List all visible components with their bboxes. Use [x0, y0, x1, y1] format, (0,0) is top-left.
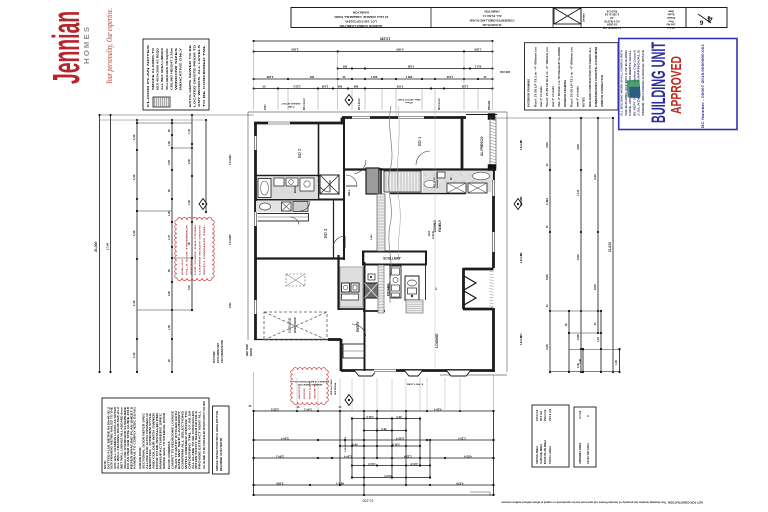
top dim row 5: [253, 85, 494, 90]
sheet number 4/6: [686, 8, 727, 28]
laundry tiled floor: [340, 267, 363, 307]
svg-text:2,480: 2,480: [266, 75, 273, 79]
svg-text:1,110: 1,110: [577, 189, 580, 196]
svg-text:BATH: BATH: [293, 186, 297, 193]
top dim extension lines: [254, 41, 493, 370]
bottom wall label: [407, 383, 424, 386]
datum diamond bottom: [345, 395, 353, 406]
title strip outer frame: [291, 8, 727, 28]
svg-text:FOR TOWEL RAIL FIXING: FOR TOWEL RAIL FIXING: [194, 224, 197, 275]
logo tagline script: [105, 8, 114, 84]
svg-text:1,310: 1,310: [446, 75, 453, 79]
svg-text:1.6x1.48: 1.6x1.48: [520, 140, 523, 150]
ensuite tiled floor: [423, 171, 493, 192]
svg-text:A: A: [586, 415, 590, 417]
svg-text:2,94 1: 2,94 1: [276, 455, 284, 459]
stamp BC number: [701, 44, 705, 128]
svg-text:max 4" of studs: max 4" of studs: [539, 86, 543, 107]
svg-text:259.3 m2: 259.3 m2: [543, 409, 547, 421]
svg-text:FLOOR PLAN: FLOOR PLAN: [603, 26, 621, 30]
svg-text:BD 1: BD 1: [417, 136, 422, 146]
room label bath: [293, 186, 297, 193]
svg-text:HALL: HALL: [348, 189, 351, 196]
wall alfresco top edge: [466, 114, 497, 120]
svg-text:CEILING HEIGHT 2.55m: CEILING HEIGHT 2.55m: [169, 47, 173, 90]
svg-text:AL FRESCO: AL FRESCO: [480, 136, 484, 156]
stamp BUILDING UNIT text: [649, 42, 670, 123]
break wavy line: [389, 106, 401, 303]
svg-text:SEE DETAIL: SEE DETAIL: [334, 382, 337, 395]
title logo x-box: [554, 8, 586, 24]
right dim chain third: [593, 117, 599, 334]
svg-text:WINDOW SIZES: WINDOW SIZES: [174, 48, 178, 90]
bottom dim row A: [248, 404, 495, 412]
svg-text:NOTES: NOTES: [581, 97, 585, 107]
svg-text:HANDRAIL TO COMPLY NZBC D1/AS1: HANDRAIL TO COMPLY NZBC D1/AS1: [133, 406, 137, 469]
svg-text:DRAIN: DRAIN: [250, 348, 253, 356]
room label dining family: [433, 219, 442, 232]
svg-text:4: 4: [707, 13, 713, 24]
wall bath top: [255, 175, 320, 177]
pantry hatch column: [377, 194, 385, 251]
room label entry: [356, 320, 360, 332]
svg-text:1,68: 1,68: [576, 334, 580, 340]
svg-text:4,29 4: 4,29 4: [434, 408, 442, 412]
wall top-right exterior: [342, 118, 466, 125]
wir shelving stripes: [384, 171, 421, 192]
datum diamond right: [514, 199, 522, 210]
svg-text:2,04 0: 2,04 0: [410, 462, 418, 466]
bay window hatch: [490, 271, 494, 307]
svg-text:ALL PLAN 1:1: ALL PLAN 1:1: [482, 14, 502, 18]
svg-text:ON CONCRETE PAD: ON CONCRETE PAD: [221, 340, 224, 363]
svg-text:3,530: 3,530: [276, 482, 283, 486]
bottom dim row B: [253, 437, 495, 442]
hwc dark cross box: [365, 283, 379, 298]
room label alfresco: [480, 136, 484, 156]
svg-text:2,60: 2,60: [188, 159, 191, 164]
svg-text:3,24 4: 3,24 4: [281, 437, 289, 441]
svg-text:1.6x1.48: 1.6x1.48: [520, 335, 523, 345]
datum diamond left: [199, 199, 207, 210]
right dim chain mid: [576, 117, 582, 373]
revision cloud bottom: [291, 368, 329, 405]
left dim chain third: [132, 119, 138, 373]
svg-text:985 kWh: 985 kWh: [489, 100, 491, 110]
top dim row 4: [253, 75, 494, 80]
svg-text:3,40: 3,40: [545, 344, 549, 350]
right lower cluster connectors: [550, 310, 621, 373]
svg-text:Your personality, Our expertis: Your personality, Our expertise.: [105, 8, 114, 84]
svg-text:WEST 3 GA6 / 6: WEST 3 GA6 / 6: [407, 383, 424, 386]
svg-text:2,33 2: 2,33 2: [271, 408, 279, 412]
svg-text:10,150: 10,150: [363, 499, 374, 503]
svg-text:2,33 2: 2,33 2: [293, 85, 301, 89]
svg-text:APPROVED: APPROVED: [668, 56, 685, 114]
datum diamond top: [345, 95, 353, 106]
svg-text:5,490: 5,490: [396, 48, 403, 52]
room label kitchen: [386, 284, 390, 296]
svg-text:2,440 APPROX: 2,440 APPROX: [344, 436, 347, 452]
left dim step connectors: [136, 123, 193, 311]
room label bd1: [417, 136, 422, 146]
svg-text:GROSS AREA: GROSS AREA: [535, 446, 539, 464]
svg-text:3,240: 3,240: [321, 85, 328, 89]
svg-text:969 4: 969 4: [405, 75, 412, 79]
svg-text:4,03 4: 4,03 4: [464, 455, 472, 459]
room label bd3: [323, 228, 328, 238]
room label garage: [288, 317, 297, 333]
svg-text:WALL SETOUT POINT: WALL SETOUT POINT: [397, 98, 421, 101]
bottom extension lines from plan: [297, 378, 460, 411]
svg-text:LOT 139 S DP 522345: LOT 139 S DP 522345: [345, 20, 377, 24]
linen x-cupboard: [320, 175, 339, 194]
wall kitchen right: [425, 264, 427, 300]
svg-text:Jennian: Jennian: [584, 13, 586, 22]
svg-text:1,94 0: 1,94 0: [368, 462, 376, 466]
note pad rhs: [330, 379, 337, 395]
svg-text:ALL BLAME TO BE CONCEALED WITH: ALL BLAME TO BE CONCEALED WITHIN SOFFIT …: [202, 401, 206, 469]
svg-text:FAMILY: FAMILY: [438, 219, 442, 232]
svg-text:3,10: 3,10: [188, 285, 191, 290]
wall bd3 bottom: [255, 257, 344, 259]
svg-text:BD 2: BD 2: [297, 148, 302, 158]
door swing arcs: [290, 151, 430, 336]
svg-text:H1.2 SG8 TRIMMER: H1.2 SG8 TRIMMER: [186, 224, 188, 275]
floor-plan-notes box: [143, 39, 209, 110]
svg-text:ALL BUILDING WORK SHALL COMPLY: ALL BUILDING WORK SHALL COMPLY WITH: [620, 50, 624, 116]
svg-text:5,60: 5,60: [545, 274, 549, 280]
right window tags: [520, 139, 523, 345]
svg-text:ALL WET AREA LININGS: ALL WET AREA LININGS: [160, 48, 164, 90]
svg-text:1,30: 1,30: [132, 352, 136, 358]
svg-text:2,41 0: 2,41 0: [392, 443, 400, 447]
svg-text:VGL 4" 600mm crs TO DELIGHT CL: VGL 4" 600mm crs TO DELIGHT CLADING: [557, 47, 561, 107]
svg-text:2.0x1.0: 2.0x1.0: [230, 237, 232, 245]
svg-text:4,570: 4,570: [456, 482, 463, 486]
svg-text:CONSENTED DWELLING PLANS: CONSENTED DWELLING PLANS: [469, 19, 514, 23]
bottom dim row D: [253, 482, 495, 487]
svg-text:2,64 5: 2,64 5: [384, 474, 392, 478]
svg-text:1,60: 1,60: [168, 141, 171, 146]
wall right-half horizontal (ens top): [344, 168, 494, 170]
svg-text:1.6x1.48: 1.6x1.48: [520, 253, 523, 263]
svg-text:800x400 BENCH: 800x400 BENCH: [436, 171, 439, 188]
left dim leader column: [205, 119, 207, 213]
notes box hatch swatch: [153, 97, 170, 107]
svg-text:1,90: 1,90: [132, 174, 136, 180]
left dim chain outer 21000: [94, 114, 101, 373]
svg-text:3,90: 3,90: [168, 291, 171, 296]
svg-text:969 4: 969 4: [370, 75, 377, 79]
stamp APPROVED text: [668, 56, 685, 114]
wall mid horizontal left (bath bottom): [255, 199, 345, 201]
svg-text:WITH OWNER TML: WITH OWNER TML: [204, 223, 206, 275]
wall laundry left vertical: [337, 255, 339, 310]
room label scullery: [383, 257, 401, 261]
louvre zigzag symbols: [464, 276, 476, 305]
top dim row 2: [253, 48, 494, 53]
smoke detector note box: [213, 406, 230, 474]
svg-text:1,46: 1,46: [188, 129, 191, 134]
svg-text:4,790: 4,790: [396, 85, 403, 89]
svg-text:Roof: 27.05 LP 73.1 m - 4" 600: Roof: 27.05 LP 73.1 m - 4" 600mm crs: [533, 46, 537, 107]
wall scullery left: [363, 251, 365, 263]
svg-text:GARAGE SETOUT: GARAGE SETOUT: [281, 102, 301, 105]
entry porch step: [343, 344, 364, 358]
room label bd2: [297, 148, 302, 158]
top dim row 3: [337, 65, 511, 75]
svg-text:GARAGE: GARAGE: [288, 317, 292, 333]
svg-text:INSTALL 90x45: INSTALL 90x45: [181, 258, 184, 275]
wall top-left exterior: [254, 122, 343, 125]
svg-text:ANY WORKS. ALL LEVELS: ANY WORKS. ALL LEVELS: [197, 45, 201, 107]
note hot water pump: [213, 340, 224, 363]
svg-text:4.7 m2: 4.7 m2: [578, 410, 582, 419]
svg-text:W1 2.4x1.0: W1 2.4x1.0: [303, 98, 306, 110]
kitchen small marks: [368, 274, 375, 280]
svg-text:2.0x1.0: 2.0x1.0: [230, 157, 232, 165]
svg-text:19 LILLI AVENUE, GREENHILL PAR: 19 LILLI AVENUE, GREENHILL PARK,: [333, 15, 388, 19]
general notes box: [102, 398, 209, 473]
svg-text:VILLABOARD OR EQUIV.: VILLABOARD OR EQUIV.: [165, 48, 169, 90]
svg-text:HAMILTON: HAMILTON: [352, 11, 369, 15]
garage clear access box: [286, 274, 305, 286]
svg-text:1,90: 1,90: [132, 230, 136, 236]
bottom dim middle cluster: [339, 410, 431, 496]
pantry lower column: [378, 265, 384, 313]
svg-text:REQUIRED AS NOTED SD: REQUIRED AS NOTED SD: [219, 438, 223, 471]
svg-text:BUILDING UNIT: BUILDING UNIT: [649, 42, 670, 123]
hwc gray cabinet: [366, 168, 379, 194]
svg-text:DIMENSIONS ONSITE CONFIRM: DIMENSIONS ONSITE CONFIRM: [594, 46, 598, 107]
right dim top connector: [497, 117, 613, 119]
note garage slab text: [291, 380, 329, 386]
svg-text:AFFECTED AREA: AFFECTED AREA: [587, 443, 590, 464]
svg-text:EXTERIOR FRAMING: EXTERIOR FRAMING: [527, 79, 531, 107]
svg-text:4,90: 4,90: [576, 144, 580, 150]
kitchen spec tiny text: [427, 171, 439, 239]
svg-text:6: 6: [699, 19, 703, 26]
wc shower room: [256, 201, 308, 212]
wall bd1-alfresco divider: [461, 116, 464, 169]
svg-text:2.4x2: 2.4x2: [431, 231, 435, 239]
svg-text:2,440: 2,440: [370, 234, 373, 240]
svg-text:LOUNGE: LOUNGE: [435, 333, 439, 348]
svg-text:1,24 4: 1,24 4: [344, 455, 352, 459]
wall left exterior: [254, 122, 257, 340]
right dim chain outer 21020: [608, 117, 614, 373]
svg-text:SMOKE DETECTORS WITH HUSH BUTT: SMOKE DETECTORS WITH HUSH BUTTON: [215, 411, 219, 471]
revision cloud left: [175, 218, 214, 281]
areas table: [532, 405, 569, 467]
svg-text:900: 900: [342, 65, 347, 69]
svg-text:2,190: 2,190: [461, 85, 468, 89]
svg-text:1,62: 1,62: [597, 337, 600, 342]
garage door dashed: [262, 339, 326, 341]
left dim chain fourth: [168, 119, 173, 373]
room label lounge: [435, 333, 439, 348]
svg-text:NZS 4514:2009 AS REQD: NZS 4514:2009 AS REQD: [156, 48, 160, 90]
svg-text:ENTRY: ENTRY: [356, 320, 360, 332]
svg-text:KITCHEN: KITCHEN: [386, 284, 390, 296]
svg-text:GARAGE AREA: GARAGE AREA: [539, 444, 543, 464]
svg-text:4,40: 4,40: [593, 174, 597, 180]
svg-text:EXTG HDPE SEWER TO BE: EXTG HDPE SEWER TO BE: [188, 45, 192, 107]
svg-text:1,46: 1,46: [132, 300, 136, 306]
svg-text:WINDOW CONNECTION: WINDOW CONNECTION: [600, 75, 604, 107]
svg-text:960: 960: [337, 85, 342, 89]
svg-text:AMEND. INCLUDING GARAGE SPACE: AMEND. INCLUDING GARAGE SPACE: [641, 50, 645, 116]
svg-text:ANTENNA AREA: ANTENNA AREA: [578, 443, 582, 464]
svg-text:JENNIAN HOMES HAMILTON: JENNIAN HOMES HAMILTON: [339, 24, 382, 28]
svg-text:3,530: 3,530: [291, 48, 298, 52]
right dim chain inner: [545, 117, 551, 373]
svg-text:21,020: 21,020: [608, 242, 612, 252]
svg-text:21,000: 21,000: [94, 242, 98, 252]
svg-text:max 4" of studs: max 4" of studs: [576, 86, 580, 107]
stamp small conditions text: [620, 50, 646, 116]
sliding door notches bottom: [354, 370, 471, 376]
svg-text:96 0: 96 0: [381, 427, 387, 431]
top window tags: [265, 98, 491, 110]
svg-text:WORKSHOP: WORKSHOP: [293, 317, 297, 333]
svg-text:MAIN ENTRY: MAIN ENTRY: [298, 385, 301, 399]
svg-text:600mm: 600mm: [405, 101, 413, 103]
svg-text:213.6 m2: 213.6 m2: [535, 409, 539, 421]
ensuite fixtures: [424, 172, 490, 193]
bottom dim right riser: [492, 375, 494, 496]
svg-text:max 4" of studs: max 4" of studs: [551, 86, 555, 107]
svg-text:NOT FOR CONSTRUCTION. This dra: NOT FOR CONSTRUCTION. This drawing remai…: [501, 501, 702, 505]
svg-text:4,65: 4,65: [168, 160, 171, 165]
logo HOMES: [82, 27, 91, 64]
svg-text:H O M E S: H O M E S: [82, 27, 91, 64]
svg-text:SED TRAP: SED TRAP: [246, 344, 249, 356]
kitchen island bench: [405, 276, 419, 300]
svg-text:17,46: 17,46: [106, 243, 110, 250]
svg-text:UNDER TRUSS: UNDER TRUSS: [191, 259, 193, 275]
svg-text:1,23 4: 1,23 4: [458, 437, 466, 441]
note sed trap: [246, 344, 253, 356]
svg-text:96 0: 96 0: [352, 443, 358, 447]
building consent stamp frame: [619, 39, 737, 130]
svg-text:PROVIDE EXTRACT VENT ALL: PROVIDE EXTRACT VENT ALL: [198, 411, 202, 469]
laundry washer dryer: [342, 283, 360, 300]
title info table (upside down): [603, 9, 675, 30]
svg-text:1,76: 1,76: [168, 235, 171, 240]
wall kitchen bottom stub: [363, 310, 385, 312]
kitchen fixture column: [390, 266, 401, 298]
svg-text:1,94 1: 1,94 1: [304, 408, 312, 412]
svg-text:1,23 4: 1,23 4: [404, 455, 412, 459]
wall right exterior: [492, 166, 495, 372]
wall hall left vertical: [333, 199, 335, 259]
kitchen bottom hatch band: [406, 300, 423, 313]
svg-text:5,63: 5,63: [576, 254, 580, 260]
left dim chain fifth: [188, 114, 193, 311]
svg-text:ST10: ST10: [265, 104, 267, 110]
svg-text:POINT: POINT: [287, 105, 294, 107]
svg-text:W3 2.4x1.0: W3 2.4x1.0: [438, 98, 441, 110]
note left wall tags: [229, 154, 232, 308]
svg-text:900: 900: [309, 75, 314, 79]
svg-text:W2 1.6x1.0: W2 1.6x1.0: [359, 98, 361, 110]
svg-text:*Roof: 27.05 LP 91.1 m - 4" 40: *Roof: 27.05 LP 91.1 m - 4" 400mm crs: [545, 46, 549, 107]
alfresco screen hatched edge: [488, 117, 496, 171]
svg-text:SMOKE SEAL TO INTERNAL DOOR: SMOKE SEAL TO INTERNAL DOOR: [162, 413, 166, 469]
wall kitchen left vertical: [380, 168, 382, 252]
eave outline thin: [248, 112, 507, 375]
title address block (upside down): [333, 11, 388, 29]
svg-text:2,43 4: 2,43 4: [396, 437, 404, 441]
svg-text:213.1 m2: 213.1 m2: [548, 408, 552, 421]
svg-text:1,50: 1,50: [168, 325, 171, 330]
wall lounge bay: [463, 268, 494, 309]
left dim chain second: [106, 114, 112, 373]
left dim top connector: [100, 115, 255, 120]
svg-text:TOTAL AREA: TOTAL AREA: [548, 445, 552, 464]
framing specification box: [525, 43, 619, 110]
bottom dim left riser: [253, 372, 255, 496]
svg-text:36.5 m2: 36.5 m2: [539, 411, 543, 421]
bath bench band: [256, 214, 309, 222]
svg-text:FLOOR PLAN NOTES: FLOOR PLAN NOTES: [146, 45, 150, 107]
wall hall right vertical: [343, 117, 345, 260]
window openings exterior: [254, 116, 496, 373]
svg-text:INTERIOR FRAMING: INTERIOR FRAMING: [563, 80, 567, 107]
bottom dim overall 10150: [253, 494, 495, 503]
wall garage front: [254, 339, 341, 341]
svg-text:BC Number - 00007 2019.0000900: BC Number - 00007 2019.0000900.001: [701, 44, 705, 128]
stamp council logo mark: [626, 80, 640, 98]
antenna table: [574, 407, 596, 467]
svg-text:BD 3: BD 3: [323, 228, 328, 238]
svg-text:10,150: 10,150: [380, 37, 390, 41]
wall laundry bottom: [338, 308, 365, 310]
svg-text:611 2: 611 2: [474, 65, 481, 69]
svg-text:1,31 9: 1,31 9: [366, 415, 374, 419]
svg-text:1,60: 1,60: [615, 360, 618, 365]
svg-text:869: 869: [353, 85, 358, 89]
svg-text:MINIMUM COMPACTED: MINIMUM COMPACTED: [297, 383, 322, 386]
svg-text:SMOKE ALARMS TO: SMOKE ALARMS TO: [151, 47, 155, 90]
svg-text:FLOOR PLAN: FLOOR PLAN: [483, 23, 502, 27]
garage slab cross: [264, 312, 327, 340]
svg-text:EXTG HDPE UNIT: EXTG HDPE UNIT: [217, 342, 220, 363]
svg-text:957 PUMP: 957 PUMP: [213, 351, 216, 363]
svg-text:HAMILTON: HAMILTON: [485, 10, 500, 14]
title project block (upside down): [469, 10, 514, 28]
bathroom tiled floor: [257, 177, 318, 199]
svg-text:PAD No70 RHS: PAD No70 RHS: [330, 379, 333, 395]
svg-text:Roof: 27.05 LP 73.1 m - 4" 600: Roof: 27.05 LP 73.1 m - 4" 600mm crs: [570, 46, 574, 107]
scullery room band: [363, 252, 426, 265]
svg-text:INDICATIVE ONLY: INDICATIVE ONLY: [179, 48, 183, 90]
top setout labels: [281, 98, 421, 107]
svg-text:1,90: 1,90: [188, 200, 191, 205]
svg-text:DOOR 860: DOOR 860: [304, 387, 306, 399]
svg-text:GARAGE 1 SLAB SETDOWN 100mm: GARAGE 1 SLAB SETDOWN 100mm: [291, 380, 329, 383]
svg-text:BUILDING CONTRACTOR TO CHECK A: BUILDING CONTRACTOR TO CHECK ALL: [588, 47, 592, 107]
svg-text:1,48: 1,48: [579, 359, 582, 364]
wall entry right vertical: [364, 262, 366, 371]
wall bd2 right vertical: [318, 123, 320, 200]
svg-text:86 0: 86 0: [396, 415, 402, 419]
wall lounge bottom exterior: [341, 369, 495, 372]
svg-text:CONFIRM HEIGHT ONSITE: CONFIRM HEIGHT ONSITE: [200, 224, 202, 275]
svg-text:1,330: 1,330: [474, 48, 481, 52]
